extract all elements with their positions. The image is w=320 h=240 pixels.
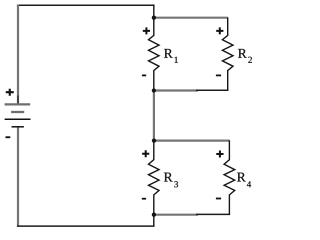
wire node1 tee to R2 top <box>154 17 228 19</box>
wire left vertical from top rail down to battery + plate <box>17 5 19 104</box>
battery B1 bottom lead stub <box>17 128 19 135</box>
R4 + polarity label <box>216 151 223 158</box>
node junction dot 3 <box>152 138 156 142</box>
battery B1 plate 1 (long, positive) <box>5 103 31 105</box>
label R2 <box>238 49 252 63</box>
R1 + polarity label <box>143 27 150 34</box>
wire left vertical from battery - plate down to bottom rail <box>17 128 19 227</box>
label R3 <box>164 173 178 188</box>
wire middle vertical node2 to node3 <box>153 91 155 141</box>
wire node4 tee to R4 bottom (dark part) <box>196 213 230 215</box>
battery - label <box>6 136 11 138</box>
R1 - polarity label <box>142 75 146 77</box>
R4 - polarity label <box>216 198 221 200</box>
R3 - polarity label <box>142 198 146 200</box>
battery B1 plate 3 (long) <box>5 118 31 120</box>
resistor R4 branch (leads + zigzag) <box>224 140 235 214</box>
wire node4 tee to R4 bottom (gray part) <box>154 214 198 216</box>
wire bottom rail from battery to R3 branch <box>17 225 155 227</box>
wire top rail from battery to R1 branch <box>17 4 155 6</box>
label R4 <box>237 173 251 188</box>
wire node2 tee to R2 bottom (gray part) <box>154 89 198 91</box>
R2 + polarity label <box>216 27 223 34</box>
R2 - polarity label <box>216 75 221 77</box>
battery B1 top lead stub <box>17 96 19 104</box>
label R1 <box>164 49 178 63</box>
node junction dot 2 <box>152 88 156 92</box>
wire node3 tee to R4 top <box>154 140 229 142</box>
resistor R2 branch (leads + zigzag) <box>222 17 233 90</box>
battery + label <box>6 89 14 96</box>
battery B1 plate 2 (short) <box>11 111 24 113</box>
wire node2 tee to R2 bottom (dark part) <box>196 89 228 91</box>
resistor R3 branch (leads + zigzag) <box>149 141 160 227</box>
R3 + polarity label <box>142 150 149 157</box>
node junction dot 4 <box>152 213 156 217</box>
battery B1 plate 4 (short, negative) <box>12 126 24 128</box>
node junction dot 1 <box>152 16 156 20</box>
resistor R1 branch (leads + zigzag) <box>149 5 160 91</box>
